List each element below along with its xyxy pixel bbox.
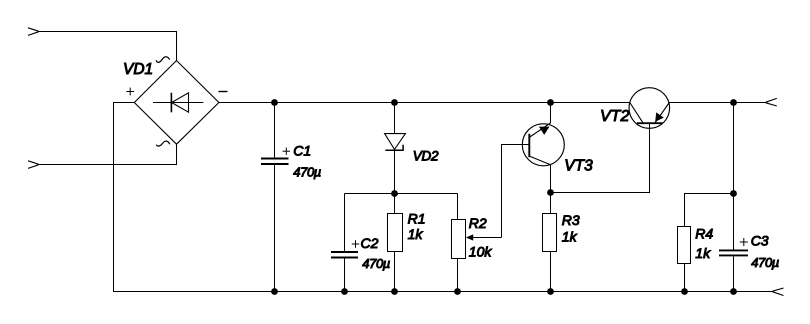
junction dot bottom rail R4 — [681, 288, 688, 295]
svg-text:VD2: VD2 — [413, 149, 439, 164]
potentiometer R2 — [452, 194, 466, 292]
junction dot bottom rail C2 — [341, 288, 348, 295]
input terminal top-left — [28, 28, 39, 36]
transistor VT2 — [629, 88, 670, 129]
svg-text:R3: R3 — [562, 212, 580, 228]
svg-text:VT2: VT2 — [600, 108, 629, 125]
junction dot top rail VD2 — [391, 99, 398, 106]
svg-text:C2: C2 — [361, 235, 379, 251]
svg-text:1k: 1k — [695, 245, 711, 261]
plus polarity mark C1 — [283, 148, 290, 155]
svg-text:R4: R4 — [695, 226, 713, 242]
wire top AC input — [38, 32, 177, 62]
transistor VT3 — [522, 103, 564, 193]
wire VT3 collector to VT2 base — [551, 123, 650, 192]
input terminal bottom-left — [28, 161, 39, 169]
resistor R4 — [678, 227, 691, 292]
svg-text:10k: 10k — [469, 243, 493, 259]
wire wiper to VT3 base — [502, 145, 530, 238]
resistor R3 — [543, 193, 557, 292]
output terminal bottom-right — [773, 288, 784, 296]
resistor R1 — [388, 194, 403, 292]
plus polarity mark C2 — [352, 240, 359, 247]
wiper arrow R2 — [466, 234, 502, 240]
capacitor C2 — [331, 194, 358, 292]
wire top rail right of VT2 — [669, 102, 766, 104]
wire mid node C2 to R2 — [345, 193, 458, 195]
junction dot top rail VT3 emitter — [547, 99, 554, 106]
junction dot VD2 bottom node — [391, 190, 398, 197]
capacitor C1 — [261, 103, 289, 292]
junction dot bottom rail C3 — [730, 288, 737, 295]
svg-text:1k: 1k — [408, 226, 424, 242]
wire output node vertical lower — [733, 257, 735, 292]
junction dot top rail C1 — [271, 99, 278, 106]
zener diode VD2 — [385, 103, 406, 194]
junction dot bottom rail C1 — [271, 288, 278, 295]
plus polarity mark bridge — [126, 88, 134, 96]
svg-text:C3: C3 — [751, 232, 769, 248]
svg-text:R2: R2 — [469, 215, 487, 231]
plus polarity mark C3 — [740, 238, 748, 246]
svg-text:VT3: VT3 — [564, 157, 593, 174]
wire top rail left of VT2 — [219, 102, 630, 104]
junction dot bottom rail R1 — [391, 288, 398, 295]
svg-text:VD1: VD1 — [123, 61, 153, 78]
capacitor C3 — [719, 250, 748, 255]
wire DC plus from bridge left corner — [114, 103, 135, 292]
minus polarity mark bridge — [219, 91, 228, 93]
wire R4 top to output node — [685, 194, 734, 227]
output terminal top-right — [766, 98, 777, 106]
svg-text:1k: 1k — [562, 229, 578, 245]
bridge rectifier VD1 — [134, 61, 219, 145]
wire bottom rail — [113, 291, 773, 293]
svg-text:470µ: 470µ — [293, 164, 321, 179]
junction dot bottom rail R2 — [454, 288, 461, 295]
svg-text:470µ: 470µ — [751, 255, 779, 270]
ac squiggle mark bottom — [156, 141, 170, 146]
svg-text:470µ: 470µ — [362, 256, 390, 271]
junction dot top rail output — [730, 99, 737, 106]
ac squiggle mark top — [156, 57, 170, 63]
svg-text:C1: C1 — [293, 142, 311, 158]
junction dot R4 output node — [730, 190, 737, 197]
junction dot VT3 collector node — [547, 189, 554, 196]
wire bottom AC input — [38, 144, 177, 165]
junction dot bottom rail R3 — [547, 288, 554, 295]
wire output node vertical upper — [733, 103, 735, 250]
svg-text:R1: R1 — [408, 211, 426, 227]
